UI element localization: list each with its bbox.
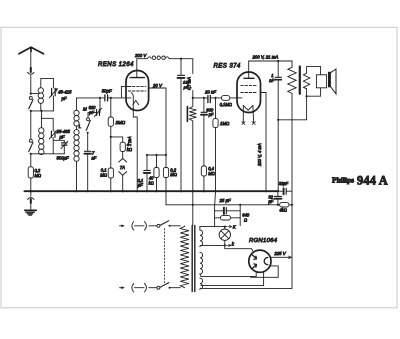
svg-text:µF: µF	[138, 183, 143, 188]
node row2	[155, 154, 157, 156]
node lamp bottom	[224, 244, 226, 246]
V2 grid dashed	[241, 85, 257, 87]
capacitor C9 20nF	[204, 96, 216, 103]
svg-text:Philips: Philips	[332, 175, 354, 184]
arrow K top	[229, 226, 231, 228]
resistor R5 40kOhm	[154, 155, 159, 191]
node det coil grid	[192, 97, 194, 99]
svg-text:225 V: 225 V	[273, 251, 286, 256]
node C8 bus	[146, 190, 148, 192]
svg-text:32µF: 32µF	[279, 181, 289, 186]
wire lamp right drop	[239, 205, 241, 226]
svg-text:RES 374: RES 374	[214, 63, 241, 70]
node A1	[30, 93, 32, 95]
node rail bias	[291, 204, 293, 206]
capacitor C6 50pF	[105, 95, 131, 101]
power transformer secondary A	[200, 230, 203, 246]
node cathode bus	[136, 190, 138, 192]
svg-text:500pF: 500pF	[57, 155, 70, 160]
wire screen node row	[147, 154, 166, 156]
V1 cathode	[131, 93, 133, 111]
resistor R8 0,4MOhm	[201, 166, 206, 191]
svg-text:7A: 7A	[120, 165, 125, 170]
svg-text:20 V: 20 V	[152, 83, 163, 88]
speaker driver	[316, 75, 326, 88]
V2 filament	[243, 106, 253, 111]
switch S1	[29, 96, 33, 109]
svg-text:pF: pF	[59, 135, 65, 140]
svg-text:45-415: 45-415	[58, 90, 72, 95]
resistor R1 0,2MOhm	[28, 167, 33, 178]
node C4	[99, 97, 101, 99]
dashed k bottom lead	[226, 244, 229, 246]
resistor R4 0,1MOhm	[108, 168, 113, 178]
coil L2	[39, 128, 44, 155]
antenna connector plug	[28, 68, 35, 74]
resistor R6 0,2MOhm	[163, 155, 168, 191]
resistor R11 640Ohm	[215, 216, 241, 220]
wire R1 to bus	[30, 178, 32, 191]
capacitor C10 600pF	[201, 98, 207, 166]
svg-text:50pF: 50pF	[102, 88, 112, 93]
node A2	[30, 110, 32, 112]
coil M	[74, 98, 79, 126]
V1 grid2 dashed	[128, 90, 146, 92]
wire lamp top	[200, 226, 224, 228]
arrow k bottom	[229, 244, 231, 246]
output transformer secondary	[303, 73, 309, 89]
V2 anode riser	[248, 61, 250, 78]
node R4 bus	[110, 190, 112, 192]
wire rail right	[249, 61, 292, 67]
V1 grid1 dashed	[128, 85, 146, 87]
node A3	[40, 110, 42, 112]
trimmer C4 620pF	[88, 98, 102, 117]
svg-text:1 mA: 1 mA	[127, 136, 132, 146]
node cathode chain	[110, 136, 112, 138]
V2 anode plate	[244, 77, 254, 79]
svg-text:1MΩ: 1MΩ	[220, 121, 230, 126]
wire antenna lead	[30, 51, 32, 68]
V2 screen lead	[261, 93, 267, 192]
switch S4	[157, 221, 180, 228]
node gnd bias	[192, 204, 194, 206]
node rail 1nF	[277, 60, 279, 62]
arrow 225V	[289, 256, 292, 259]
wire secondary top	[307, 67, 321, 75]
wire grid line V1	[77, 97, 105, 99]
wire B+ down	[201, 205, 292, 289]
svg-text:25 µF: 25 µF	[219, 198, 231, 203]
wire rail to corner	[181, 59, 193, 74]
capacitor C8 0,1uF	[144, 155, 150, 191]
wire primary bottom down	[291, 93, 293, 204]
output transformer primary	[288, 67, 296, 93]
variable capacitor C1 45-415pF	[49, 88, 57, 111]
detector coil zigzag	[189, 98, 196, 191]
wire 125pF to bus	[180, 78, 182, 191]
wire 0,7mA segment	[193, 91, 204, 98]
wire V3 pin1	[201, 272, 256, 277]
V2 screen dashed	[241, 92, 257, 94]
node R3 bus	[122, 190, 124, 192]
wire 225V	[271, 256, 292, 258]
ground symbol	[25, 190, 37, 215]
wire secondary bottom	[307, 88, 321, 96]
node R6 bus	[165, 190, 167, 192]
svg-text:200 V, 4 mA: 200 V, 4 mA	[257, 143, 262, 167]
switch S3	[86, 112, 90, 133]
trimmer C3 500pF	[53, 140, 68, 154]
wire V3 anode feed	[225, 245, 253, 251]
resistor R10 4kOhm	[280, 203, 292, 207]
ground bus	[25, 190, 278, 192]
wire to R3	[111, 137, 123, 142]
wire K bottom	[201, 244, 225, 246]
svg-text:pF: pF	[208, 112, 214, 117]
rectifier V3 RGN1064	[249, 250, 271, 272]
node coil bus	[180, 190, 182, 192]
svg-text:4kΩ: 4kΩ	[279, 208, 286, 213]
wire to node A1	[30, 76, 32, 94]
wire lamp feed	[199, 227, 201, 230]
node R8 bus	[203, 190, 205, 192]
wire S3 to C5	[87, 133, 89, 151]
wire to R1	[30, 154, 32, 167]
V1 screen lead 20V	[149, 88, 166, 155]
wire V3 pin2	[201, 272, 264, 286]
mains upper plug	[120, 222, 157, 231]
power transformer primary	[180, 226, 189, 288]
V2 filament leads	[242, 106, 256, 125]
node C5 bus	[87, 190, 89, 192]
power transformer secondary B	[200, 252, 203, 276]
switch S2	[29, 139, 33, 151]
resistor R2 2MOhm	[108, 98, 113, 137]
wire tank1 bottom	[31, 110, 54, 112]
node bus end	[277, 190, 279, 192]
variable capacitor C2 25-465pF	[49, 130, 57, 154]
wire R4 bus	[110, 178, 112, 191]
wire lamp left drop	[214, 191, 217, 226]
resistor R7 0,1MOhm grid	[216, 96, 238, 101]
wire tank2 bottom	[31, 153, 65, 155]
dashed K top lead	[226, 226, 231, 228]
node row3	[165, 154, 167, 156]
node rail 125pF	[180, 58, 182, 60]
wire tank1 top	[41, 78, 54, 88]
V1 cathode lead	[133, 111, 137, 192]
svg-text:µF: µF	[268, 199, 273, 204]
coil L1 antenna	[38, 78, 43, 111]
wire to tank2	[42, 111, 54, 131]
switch S5	[157, 283, 180, 290]
wire bias row	[166, 204, 280, 206]
node row1	[146, 154, 148, 156]
anode choke	[137, 56, 181, 59]
node V2 grid	[203, 97, 205, 99]
node grid junction	[110, 97, 112, 99]
output transformer core	[299, 67, 301, 94]
svg-text:MΩ: MΩ	[170, 172, 177, 177]
resistor R3 4kOhm	[120, 142, 125, 151]
coil L	[74, 126, 79, 191]
capacitor C14 25uF	[215, 208, 241, 214]
V3 electrodes	[253, 255, 268, 268]
pilot lamp	[219, 226, 230, 246]
tube V1 RENS1264	[126, 71, 149, 111]
wire V3 loop	[251, 266, 279, 277]
node spk return	[277, 119, 279, 121]
power transformer core	[192, 226, 195, 292]
wire main down	[30, 111, 32, 139]
V1 anode riser	[136, 59, 138, 78]
node screen bus	[265, 190, 267, 192]
svg-text:20 nF: 20 nF	[204, 90, 216, 95]
power transformer secondary C	[200, 278, 203, 289]
wire spk return	[278, 96, 306, 120]
capacitor C12 32uF	[278, 188, 292, 194]
svg-text:2MΩ: 2MΩ	[115, 120, 126, 125]
resistor R9 1MOhm	[213, 98, 218, 191]
switch link dashed	[164, 229, 166, 285]
detector coil core bar	[186, 107, 188, 122]
svg-text:944 A: 944 A	[357, 173, 388, 187]
V1 grid lead	[121, 86, 130, 98]
barretter 7A	[119, 152, 127, 192]
node A4	[30, 153, 32, 155]
speaker cone	[328, 69, 336, 94]
V1 heater	[133, 100, 139, 104]
svg-text:RENS 1264: RENS 1264	[98, 61, 134, 68]
capacitor C13 32uF	[274, 191, 281, 205]
capacitor C5 7nF	[84, 151, 91, 191]
svg-text:200 V: 200 V	[134, 53, 147, 58]
svg-text:Ω: Ω	[244, 217, 247, 222]
tube V2 RES374	[237, 72, 261, 113]
node R5 bus	[155, 190, 157, 192]
svg-text:25-465: 25-465	[56, 129, 71, 134]
mains lower plug	[120, 283, 157, 292]
svg-text:200 V, 21 mA: 200 V, 21 mA	[252, 54, 279, 59]
svg-text:pF: pF	[183, 84, 189, 89]
wire tap to coil L1	[31, 93, 38, 95]
capacitor C7 125pF	[178, 59, 185, 78]
svg-text:MΩ: MΩ	[208, 171, 215, 176]
svg-text:nF: nF	[269, 78, 274, 83]
V2 grid lead tick	[237, 97, 242, 99]
node 1M junction	[214, 97, 216, 99]
node secondary bottom	[306, 95, 308, 97]
wire core ground	[192, 205, 194, 226]
svg-text:0,1MΩ: 0,1MΩ	[220, 102, 232, 107]
antenna	[19, 47, 44, 54]
node L bus	[75, 190, 77, 192]
svg-text:MΩ: MΩ	[100, 172, 107, 177]
node bias C13	[277, 204, 279, 206]
node R9 bus	[214, 190, 216, 192]
svg-text:pF: pF	[61, 96, 67, 101]
svg-text:kΩ: kΩ	[127, 147, 132, 152]
svg-text:M: M	[83, 106, 87, 111]
node bias lamp drop	[239, 204, 241, 206]
svg-text:MΩ: MΩ	[35, 173, 42, 178]
svg-text:kΩ: kΩ	[149, 180, 154, 185]
capacitor C11 1nF	[275, 61, 281, 191]
svg-text:RGN1064: RGN1064	[249, 238, 278, 244]
wire gnd drop	[166, 191, 193, 205]
svg-text:nF: nF	[92, 156, 97, 161]
svg-text:pF: pF	[88, 110, 94, 115]
V1 anode plate	[130, 77, 144, 79]
node det coil bus	[192, 190, 194, 192]
wire R2 to R4	[110, 137, 112, 168]
